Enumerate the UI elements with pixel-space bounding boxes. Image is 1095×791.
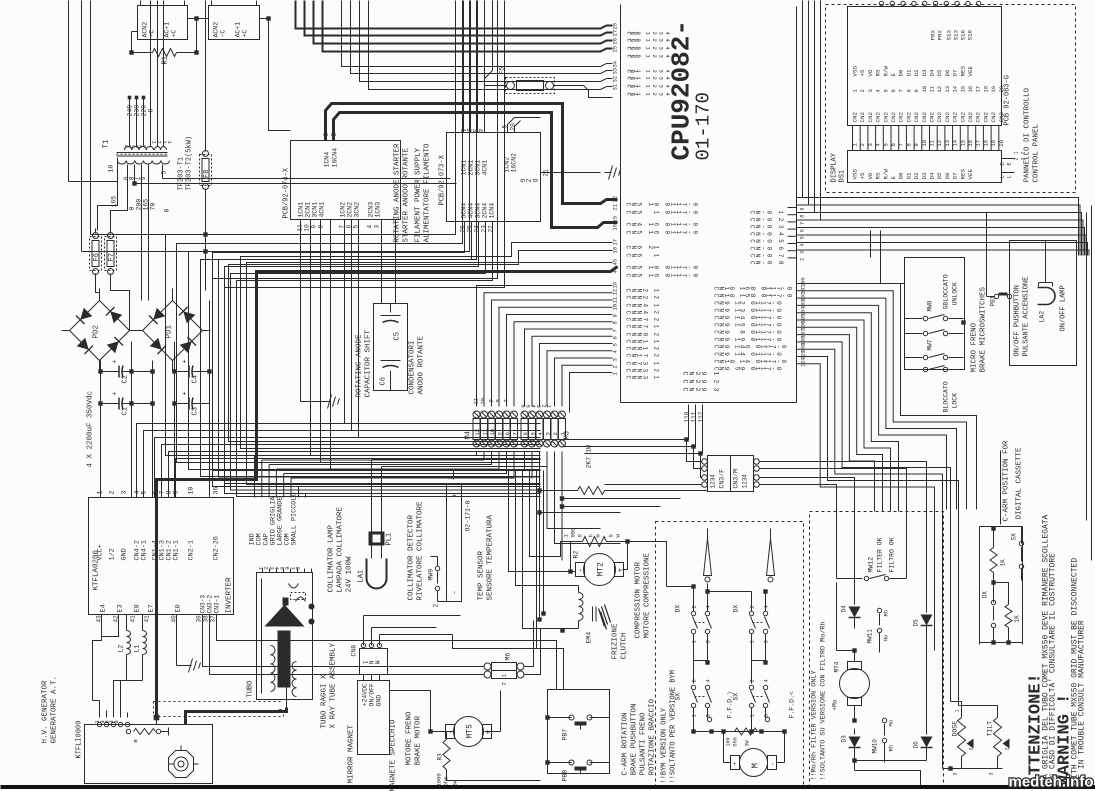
bym slide switch 1 — [704, 539, 712, 576]
panel left verticals — [802, 1, 804, 198]
svg-text:11: 11 — [929, 139, 936, 146]
svg-text:13: 13 — [944, 140, 951, 147]
cap bus wires — [100, 361, 102, 498]
HV resistor — [126, 729, 130, 733]
svg-text:CNN42: CNN42 — [625, 311, 660, 315]
inductor L1 — [142, 615, 144, 631]
svg-text:!!Mo/Rh FILTER VERSION ONLY: !!Mo/Rh FILTER VERSION ONLY — [811, 670, 819, 780]
svg-text:240: 240 — [127, 105, 134, 117]
svg-text:RES: RES — [959, 66, 966, 77]
switch MW10 — [882, 718, 886, 722]
svg-text:O2-171-0: O2-171-0 — [465, 500, 472, 531]
svg-text:2: 2 — [433, 604, 440, 608]
svg-text:4CN1: 4CN1 — [319, 202, 326, 218]
svg-text:14: 14 — [952, 139, 959, 146]
svg-text:165: 165 — [143, 199, 150, 211]
svg-text:8: 8 — [495, 399, 502, 402]
svg-text:-: - — [577, 568, 586, 573]
inverter feed wires — [137, 424, 541, 498]
svg-text:E: E — [890, 73, 897, 77]
svg-text:C-ARM POSITION FOR: C-ARM POSITION FOR — [1003, 440, 1011, 522]
svg-text:MT2: MT2 — [597, 562, 606, 577]
svg-text:CN-01: CN-01 — [749, 211, 785, 215]
svg-text:L1: L1 — [134, 645, 141, 653]
svg-text:FILTRO OK: FILTRO OK — [889, 537, 896, 572]
svg-text:3: 3 — [374, 225, 381, 229]
svg-text:MW11: MW11 — [867, 629, 874, 644]
svg-text:F.F.D.): F.F.D.) — [727, 691, 734, 718]
svg-text:SX: SX — [1011, 533, 1018, 541]
svg-text:E: E — [890, 176, 897, 180]
svg-text:D7: D7 — [952, 172, 959, 179]
svg-text:7: 7 — [898, 89, 905, 92]
svg-text:4 X 2200uF 350Vdc: 4 X 2200uF 350Vdc — [87, 391, 95, 468]
svg-text:BRAKE PUSHBUTTON: BRAKE PUSHBUTTON — [631, 703, 639, 775]
svg-text:CN2-1: CN2-1 — [188, 540, 196, 560]
svg-text:SMALL PICCOLO: SMALL PICCOLO — [291, 492, 299, 545]
svg-text:01-170: 01-170 — [693, 92, 715, 160]
T1 wires right — [135, 183, 457, 185]
svg-text:8: 8 — [905, 143, 912, 146]
display panel dashed border — [826, 5, 1076, 193]
svg-text:KTFLI0009: KTFLI0009 — [76, 721, 84, 759]
svg-text:INVERTER: INVERTER — [226, 577, 234, 614]
svg-text:D0: D0 — [898, 69, 905, 76]
CN3M out wires — [760, 462, 927, 512]
svg-text:E8: E8 — [134, 604, 142, 612]
svg-text:CN101680117-0: CN101680117-0 — [713, 287, 793, 291]
svg-text:41: 41 — [130, 615, 137, 623]
svg-text:+C: +C — [242, 30, 249, 38]
svg-text:S16: S16 — [960, 30, 967, 41]
display DS1 block — [848, 151, 1002, 183]
svg-text:-C: -C — [220, 30, 227, 38]
wires F6 F7 down — [96, 279, 100, 301]
transformer T1 primary coils — [125, 147, 132, 151]
073 pin5 wire — [508, 118, 541, 133]
svg-text:M: M — [751, 763, 761, 768]
cap bus horiz — [101, 371, 113, 373]
svg-text:UNLOCK: UNLOCK — [952, 282, 959, 306]
pushbutton PB8 — [569, 760, 574, 765]
inductor L2 — [126, 615, 128, 631]
svg-text:10: 10 — [612, 304, 619, 311]
wire row last — [570, 373, 613, 413]
svg-text:-: - — [447, 730, 456, 735]
svg-text:230: 230 — [134, 105, 141, 117]
wire cascade left Z-paths — [166, 1, 541, 456]
connector CN8 NM1 — [360, 649, 388, 675]
svg-text:6: 6 — [504, 432, 511, 435]
wire left vertical 3 — [81, 1, 83, 252]
svg-text:PANNELLO DI CONTROLLO: PANNELLO DI CONTROLLO — [1024, 87, 1032, 182]
svg-text:1CN2: 1CN2 — [340, 202, 347, 218]
svg-text:18: 18 — [982, 86, 989, 93]
svg-text:CN101580117-0: CN101580117-0 — [713, 294, 793, 298]
svg-text:14: 14 — [952, 85, 959, 92]
svg-text:70: 70 — [150, 203, 157, 211]
svg-text:D4: D4 — [929, 172, 936, 179]
svg-text:16: 16 — [967, 140, 974, 147]
pb feed wires — [217, 615, 557, 690]
svg-text:9: 9 — [913, 89, 920, 92]
svg-text:2CN2: 2CN2 — [347, 202, 354, 218]
svg-text:3: 3 — [867, 143, 874, 146]
T1 pin wires down — [127, 165, 129, 191]
wires L to HV — [114, 681, 127, 718]
svg-text:CN61: CN61 — [625, 254, 660, 258]
svg-text:CN-04: CN-04 — [749, 232, 785, 236]
svg-text:9: 9 — [612, 314, 619, 317]
connector box AC2/AC1 left — [138, 6, 188, 40]
svg-text:13: 13 — [944, 86, 951, 93]
svg-text:5CN4: 5CN4 — [461, 203, 468, 219]
svg-text:D6: D6 — [944, 69, 951, 76]
svg-text:S13: S13 — [953, 30, 960, 41]
svg-text:FILAMENT POWER SUPPLY: FILAMENT POWER SUPPLY — [415, 147, 423, 242]
svg-text:FRIZIONE: FRIZIONE — [612, 623, 620, 660]
connector M3 — [521, 411, 528, 418]
svg-text:X RAY TUBE ASSEMBLY: X RAY TUBE ASSEMBLY — [330, 642, 338, 728]
thick wire B2 — [334, 113, 618, 228]
svg-text:2K7 1W: 2K7 1W — [586, 445, 593, 469]
MT5 wires — [431, 731, 446, 733]
svg-text:8: 8 — [522, 432, 529, 435]
fuse F7 — [105, 237, 117, 271]
svg-text:21: 21 — [612, 203, 619, 210]
svg-text:MW7: MW7 — [927, 339, 934, 350]
M6 wires — [203, 615, 484, 667]
diode D3 — [854, 729, 856, 735]
svg-text:10: 10 — [921, 140, 928, 147]
transformer T1 secondary coils — [118, 161, 127, 165]
svg-text:12: 12 — [612, 289, 619, 296]
svg-text:F.F.D.<: F.F.D.< — [789, 691, 796, 718]
svg-text:3W: 3W — [745, 740, 751, 746]
resistor R1 — [131, 32, 133, 53]
svg-text:CN2: CN2 — [905, 112, 912, 123]
svg-text:PB8: PB8 — [562, 770, 569, 782]
svg-text:17: 17 — [975, 140, 982, 147]
svg-text:D5: D5 — [936, 69, 943, 76]
display wires between blocks — [852, 126, 854, 151]
svg-text:Rh: Rh — [883, 610, 890, 617]
svg-text:1: 1 — [955, 709, 961, 712]
T1 pin squares — [128, 96, 132, 100]
tube filament coil right — [292, 662, 297, 671]
connector box AC2/AC1 right — [209, 6, 260, 40]
mirror magnet body — [358, 681, 390, 755]
display CN2 top circles — [879, 1, 883, 5]
tube output wire 9 — [286, 688, 288, 708]
svg-text:S13: S13 — [946, 30, 953, 41]
svg-text:BLOCCATO: BLOCCATO — [943, 381, 950, 412]
svg-text:CN2: CN2 — [936, 112, 943, 123]
svg-text:2: 2 — [969, 747, 975, 750]
svg-text:8: 8 — [905, 89, 912, 92]
svg-text:CN2: CN2 — [859, 112, 866, 123]
svg-text:CN-08: CN-08 — [749, 261, 785, 265]
svg-text:EEEEE: EEEEE — [94, 721, 119, 724]
svg-text:CN291: CN291 — [682, 372, 720, 376]
svg-text:DX: DX — [733, 605, 740, 613]
svg-text:ROTATING ANODE STARTER: ROTATING ANODE STARTER — [394, 143, 402, 243]
svg-text:2: 2 — [859, 143, 866, 146]
svg-text:CN621: CN621 — [625, 246, 660, 250]
svg-text:D2: D2 — [913, 69, 920, 76]
svg-text:CNN72: CNN72 — [625, 318, 660, 322]
svg-text:AC+1: AC+1 — [235, 22, 242, 38]
svg-text:27: 27 — [612, 30, 619, 37]
svg-text:2: 2 — [552, 432, 559, 435]
074 pin wires down — [310, 220, 312, 456]
svg-text:TF203-T1: TF203-T1 — [178, 157, 186, 191]
transformer T1 core — [117, 152, 168, 154]
pot DOSE — [958, 718, 966, 757]
svg-text:PD1: PD1 — [166, 324, 174, 338]
svg-text:D6: D6 — [944, 172, 951, 179]
svg-text:MOTORE FRENO: MOTORE FRENO — [406, 711, 414, 766]
svg-text:1CN1: 1CN1 — [298, 202, 305, 218]
svg-text:VSS: VSS — [852, 169, 859, 180]
wires cpu to panel bottom — [797, 198, 1079, 256]
svg-text:+C: +C — [171, 30, 178, 38]
svg-text:000: 000 — [570, 528, 577, 538]
svg-text:22: 22 — [612, 196, 619, 203]
svg-text:1NM: 1NM — [362, 661, 380, 665]
svg-text:CN2: CN2 — [898, 112, 905, 123]
svg-text:Ohm: Ohm — [733, 737, 739, 746]
svg-text:0: 0 — [148, 109, 155, 113]
motor MT5 — [454, 717, 484, 747]
svg-text:3CN1: 3CN1 — [475, 160, 482, 176]
svg-text:10: 10 — [921, 86, 928, 93]
svg-text:MW9: MW9 — [428, 569, 435, 581]
wires M3 down to motors — [539, 452, 541, 491]
svg-text:DS1: DS1 — [839, 170, 847, 183]
svg-text:2CN3: 2CN3 — [368, 202, 375, 218]
bridge rectifier PD1 — [143, 301, 203, 361]
anode arrow shaft — [278, 631, 291, 688]
svg-text:VCC+: VCC+ — [97, 544, 105, 560]
svg-text:CN-03: CN-03 — [749, 225, 785, 229]
svg-text:4321: 4321 — [123, 145, 147, 149]
bym wires lower — [693, 708, 695, 732]
pushbutton box — [548, 690, 610, 774]
svg-text:16: 16 — [967, 86, 974, 93]
svg-text:CAPACITOR SHIFT: CAPACITOR SHIFT — [365, 329, 373, 397]
svg-text:9: 9 — [488, 399, 495, 402]
svg-text:D5: D5 — [913, 619, 920, 627]
svg-text:CN91460117-0: CN91460117-0 — [713, 345, 788, 349]
svg-text:7: 7 — [503, 399, 510, 402]
svg-text:12: 12 — [936, 86, 943, 93]
svg-text:1234: 1234 — [742, 474, 749, 489]
bym resistor — [694, 731, 766, 733]
anode cap box — [374, 304, 408, 391]
svg-text:LA2: LA2 — [1039, 311, 1046, 323]
svg-text:D6: D6 — [913, 741, 920, 749]
svg-text:9876: 9876 — [122, 177, 146, 181]
micro box wires — [870, 231, 872, 258]
svg-text:F8: F8 — [203, 170, 211, 178]
morh wires — [836, 583, 838, 651]
HV octagon port — [169, 751, 194, 778]
svg-text:CNN02: CNN02 — [625, 333, 660, 337]
svg-text:TILT: TILT — [987, 721, 994, 737]
wire left vertical 2 — [90, 1, 92, 235]
pot TILT — [994, 718, 1002, 757]
wires M4 down — [255, 452, 477, 456]
svg-text:41: 41 — [144, 615, 151, 623]
svg-text:18: 18 — [612, 247, 619, 254]
svg-text:2: 2 — [800, 258, 806, 261]
svg-text:20: 20 — [998, 140, 1005, 147]
svg-text:VEE: VEE — [967, 169, 974, 180]
svg-text:10: 10 — [489, 429, 496, 436]
svg-text:17: 17 — [612, 239, 619, 246]
svg-text:4CN4: 4CN4 — [468, 203, 475, 219]
svg-text:6: 6 — [612, 336, 619, 339]
diode D4 — [854, 512, 856, 605]
1k wires — [980, 526, 1023, 528]
switch group DX2 — [749, 611, 753, 615]
svg-text:2: 2 — [109, 491, 116, 495]
svg-text:23: 23 — [481, 225, 488, 233]
svg-text:VEE: VEE — [967, 66, 974, 77]
resistor 1K b — [1005, 605, 1012, 628]
svg-text:CN2: CN2 — [875, 112, 882, 123]
HV generator block KTFLI0009 — [85, 725, 213, 784]
svg-text:VSS: VSS — [852, 66, 859, 77]
073 top wires — [463, 1, 465, 133]
svg-text:CN-02: CN-02 — [749, 218, 785, 222]
svg-text:CNN11: CNN11 — [625, 340, 660, 344]
svg-text:PD2: PD2 — [93, 325, 101, 339]
svg-text:GZD: GZD — [519, 179, 538, 183]
svg-text:R3: R3 — [437, 753, 444, 761]
svg-text:11: 11 — [612, 296, 619, 303]
anode arrow stem — [283, 598, 289, 606]
motor MT2 — [584, 554, 616, 586]
svg-text:CN292: CN292 — [682, 380, 720, 384]
svg-text:F6: F6 — [93, 253, 101, 261]
svg-text:MICRO FRENO: MICRO FRENO — [971, 322, 979, 372]
svg-text:PRX: PRX — [930, 30, 937, 41]
tube grid wires up — [254, 456, 256, 498]
display CN2 block — [848, 7, 1002, 126]
right edge verticals — [1086, 213, 1088, 521]
svg-text:CN-05: CN-05 — [749, 239, 785, 243]
onoff wires — [987, 296, 995, 298]
svg-text:1CN4: 1CN4 — [324, 152, 331, 168]
diode D5 — [926, 512, 928, 613]
svg-text:COLLIMATOR DETECTOR: COLLIMATOR DETECTOR — [408, 514, 416, 600]
bym slide switch 2 — [767, 539, 775, 576]
svg-text:CN-07: CN-07 — [749, 254, 785, 258]
svg-text:BRAKE MOTOR: BRAKE MOTOR — [415, 715, 423, 765]
svg-text:6: 6 — [800, 229, 806, 232]
svg-text:110: 110 — [684, 411, 691, 422]
svg-text:CN2: CN2 — [959, 112, 966, 123]
tube focus hooks — [289, 584, 299, 589]
svg-text:2: 2 — [859, 89, 866, 92]
svg-text:4CN1: 4CN1 — [482, 160, 489, 176]
ground near inverter — [185, 665, 192, 667]
svg-text:MT4: MT4 — [834, 661, 841, 672]
svg-text:CN4-1: CN4-1 — [141, 540, 149, 560]
svg-text:GND: GND — [121, 548, 129, 560]
wire rows 242 250 — [241, 243, 613, 449]
diode D6 — [926, 729, 928, 735]
svg-text:-: - — [770, 762, 777, 766]
svg-text:F7: F7 — [108, 253, 116, 261]
svg-text:C-ARM ROTATION: C-ARM ROTATION — [622, 712, 630, 775]
svg-text:1CN1: 1CN1 — [461, 160, 468, 176]
svg-text:VO: VO — [867, 172, 874, 179]
lamp LA2 — [1038, 288, 1056, 305]
svg-text:PCB/92-073-X: PCB/92-073-X — [439, 154, 447, 205]
svg-text:CN2: CN2 — [929, 112, 936, 123]
svg-text:C1: C1 — [122, 407, 130, 415]
page bottom border — [1, 785, 1095, 789]
svg-text:M4: M4 — [465, 431, 473, 439]
capacitor C4 — [183, 371, 190, 373]
svg-text:2: 2 — [1005, 747, 1011, 750]
svg-text:19: 19 — [990, 86, 997, 93]
connector PL1 — [369, 532, 385, 546]
bym motor M — [740, 749, 768, 777]
svg-text:!!SOLTANTO PER VERSIONE BYM: !!SOLTANTO PER VERSIONE BYM — [670, 670, 678, 783]
svg-text:VO: VO — [867, 69, 874, 76]
capacitor C6 — [381, 360, 401, 362]
wire cascade cpu to M4 M3 — [477, 286, 613, 407]
svg-text:31: 31 — [612, 83, 619, 90]
svg-text:RES: RES — [959, 169, 966, 180]
svg-text:22: 22 — [488, 225, 495, 233]
tube pin wires top — [262, 569, 264, 573]
svg-text:2 1: 2 1 — [1014, 151, 1020, 160]
svg-text:D3: D3 — [921, 69, 928, 76]
svg-text:MT5: MT5 — [466, 724, 475, 739]
svg-text:H.V. GENERATOR: H.V. GENERATOR — [42, 680, 50, 744]
svg-text:DIGITAL CASSETTE: DIGITAL CASSETTE — [1016, 447, 1024, 520]
bym wires — [693, 587, 695, 612]
svg-text:C4: C4 — [192, 375, 200, 383]
svg-text:ANODO ROTANTE: ANODO ROTANTE — [418, 335, 426, 394]
lamp LA1 — [367, 559, 387, 589]
svg-text:10: 10 — [188, 487, 195, 495]
svg-text:3CN1: 3CN1 — [312, 202, 319, 218]
svg-text:10: 10 — [108, 165, 115, 173]
svg-text:PL1: PL1 — [386, 533, 394, 546]
svg-text:5: 5 — [530, 432, 537, 435]
svg-text:32: 32 — [612, 76, 619, 83]
svg-text:D0: D0 — [898, 172, 905, 179]
fuse F6 — [90, 237, 102, 271]
cpu block CPU92082 — [620, 5, 622, 403]
svg-text:16CN2: 16CN2 — [511, 153, 518, 173]
motor MT4 — [840, 669, 870, 699]
svg-text:6: 6 — [890, 89, 897, 92]
svg-text:DX: DX — [982, 591, 989, 599]
svg-text:h: h — [588, 534, 595, 537]
svg-text:PULSANTI FRENO: PULSANTI FRENO — [640, 712, 648, 776]
switch MW9 — [435, 566, 439, 570]
wire top joining boxes — [188, 18, 209, 20]
svg-text:CNN31: CNN31 — [625, 376, 660, 380]
svg-text:LAMPADA COLLIMATORE: LAMPADA COLLIMATORE — [337, 506, 345, 592]
